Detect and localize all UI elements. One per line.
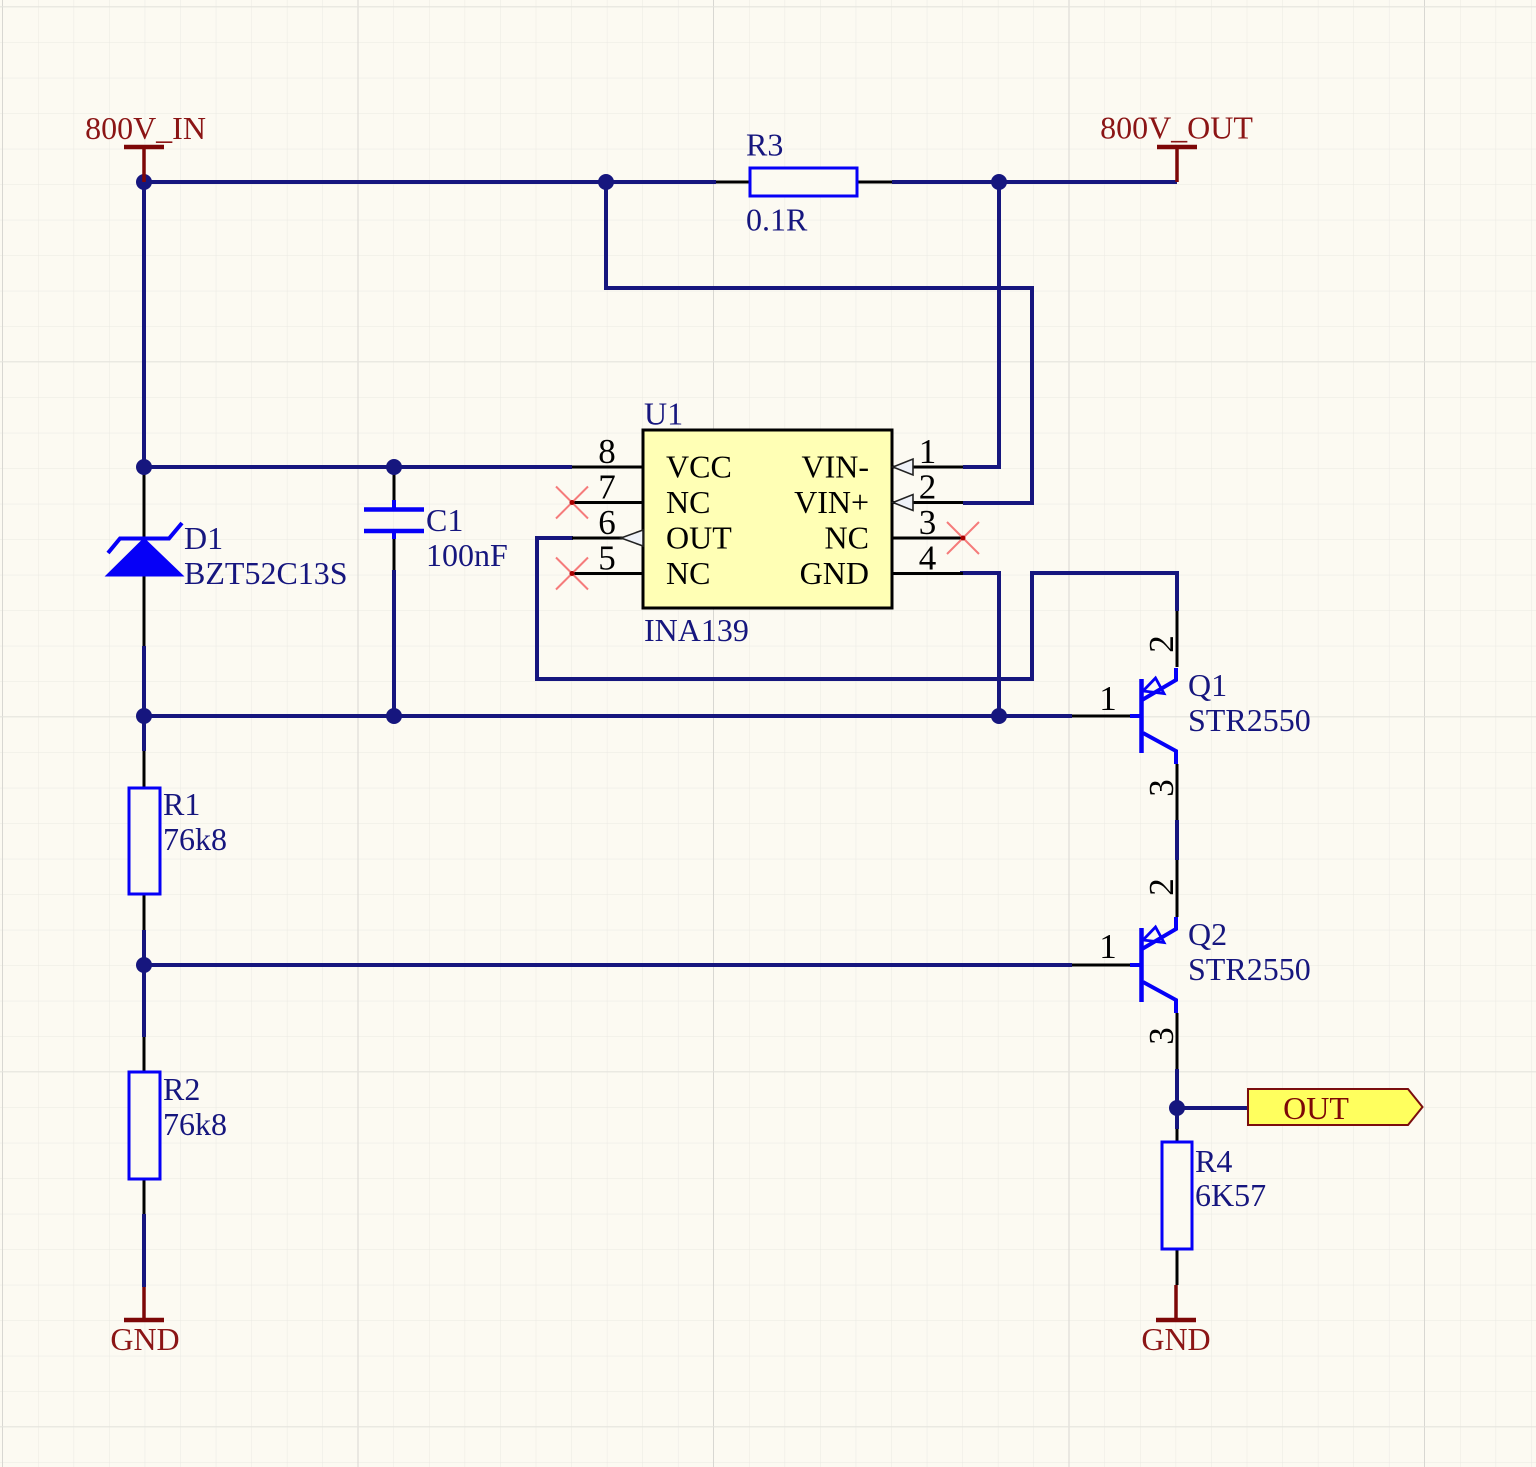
svg-text:R4: R4 bbox=[1195, 1143, 1232, 1179]
R4 pin 2 bbox=[1176, 1249, 1179, 1285]
svg-text:INA139: INA139 bbox=[644, 612, 749, 648]
D1 cathode pin bbox=[143, 467, 146, 538]
wire base row (D1 node to Q1 base) bbox=[144, 714, 1072, 718]
node OUT bbox=[1169, 1100, 1185, 1116]
Q1 pin 3 vertical bbox=[1176, 764, 1179, 820]
svg-text:Q1: Q1 bbox=[1188, 667, 1227, 703]
node VCC rail left bbox=[136, 459, 152, 475]
wire Q2 emitter to OUT node bbox=[1175, 1069, 1179, 1108]
wire OUT net (U1 pin 6 loop to Q1 collector) bbox=[537, 538, 1177, 679]
svg-text:NC: NC bbox=[666, 555, 710, 591]
R1 pin 1 bbox=[143, 751, 146, 788]
U1 pin 1 input triangle bbox=[893, 459, 913, 475]
svg-text:76k8: 76k8 bbox=[163, 1106, 227, 1142]
svg-text:NC: NC bbox=[666, 484, 710, 520]
R1 pin 2 bbox=[143, 894, 146, 930]
wire top rail left (800V_IN to R3) bbox=[144, 180, 716, 184]
wire VCC row bbox=[144, 465, 572, 469]
op-amp U1 INA139 body bbox=[643, 396, 892, 649]
U1 pin names bbox=[666, 449, 869, 592]
svg-text:VIN-: VIN- bbox=[801, 449, 869, 485]
Q1 pin 2 vertical bbox=[1176, 611, 1179, 667]
node 800V_IN junction bbox=[136, 174, 152, 190]
wire VIN- net (top rail to U1 pin 1) bbox=[963, 182, 999, 467]
wire VIN+ net (top rail to U1 pin 2) bbox=[606, 182, 1032, 503]
svg-text:1: 1 bbox=[1099, 679, 1117, 718]
svg-text:2: 2 bbox=[1142, 635, 1181, 653]
U1 pin 3 bbox=[892, 537, 963, 540]
svg-text:3: 3 bbox=[1142, 779, 1181, 797]
svg-text:0.1R: 0.1R bbox=[746, 202, 808, 238]
resistor R1 bbox=[129, 786, 227, 894]
capacitor C1 bbox=[364, 500, 508, 573]
Q1 pin 1 base bbox=[1072, 715, 1137, 718]
node C1 bottom bbox=[386, 708, 402, 724]
diode D1 zener bbox=[107, 520, 348, 591]
node base row left bbox=[136, 708, 152, 724]
svg-text:D1: D1 bbox=[184, 520, 223, 556]
wire OUT node to R4 top bbox=[1175, 1108, 1179, 1129]
svg-text:7: 7 bbox=[598, 468, 616, 507]
C1 pin 2 bbox=[393, 539, 396, 570]
svg-text:Q2: Q2 bbox=[1188, 916, 1227, 952]
svg-text:VIN+: VIN+ bbox=[794, 484, 869, 520]
svg-text:R3: R3 bbox=[746, 127, 783, 163]
svg-text:1: 1 bbox=[1099, 927, 1117, 966]
node U1 GND to base bbox=[991, 708, 1007, 724]
U1 pin 1 bbox=[892, 466, 963, 469]
wire R2 bottom to GND bbox=[142, 1214, 146, 1287]
svg-text:C1: C1 bbox=[426, 502, 463, 538]
transistor Q1 bbox=[1130, 668, 1176, 764]
ground GND left bbox=[110, 1287, 179, 1357]
svg-text:3: 3 bbox=[1142, 1027, 1181, 1045]
U1 pin 5 bbox=[572, 572, 643, 575]
Q2 pin 2 vertical bbox=[1176, 860, 1179, 917]
wire C1 bottom to base row bbox=[392, 570, 396, 716]
svg-text:GND: GND bbox=[110, 1321, 179, 1357]
svg-text:5: 5 bbox=[598, 539, 616, 578]
Q1 designator and value labels bbox=[1188, 667, 1311, 738]
svg-text:U1: U1 bbox=[644, 396, 683, 432]
svg-text:800V_IN: 800V_IN bbox=[85, 110, 206, 146]
R3 pin 1 bbox=[716, 181, 750, 184]
D1 anode pin bbox=[143, 575, 146, 646]
U1 pin numbers bbox=[598, 432, 936, 578]
svg-text:2: 2 bbox=[1142, 878, 1181, 896]
R2 pin 1 bbox=[143, 1037, 146, 1072]
svg-text:6K57: 6K57 bbox=[1195, 1177, 1266, 1213]
Q2 designator and value labels bbox=[1188, 916, 1311, 987]
svg-text:8: 8 bbox=[598, 432, 616, 471]
Q2 pin 3 vertical bbox=[1176, 1013, 1179, 1069]
wire left rail down to VCC row bbox=[142, 182, 146, 467]
svg-text:OUT: OUT bbox=[666, 520, 732, 556]
Q2 pin numbers 1 2 3 bbox=[1099, 878, 1181, 1045]
node VIN- tap bbox=[991, 174, 1007, 190]
U1 pin 2 bbox=[892, 501, 963, 504]
svg-text:6: 6 bbox=[598, 503, 616, 542]
svg-text:OUT: OUT bbox=[1283, 1090, 1349, 1126]
transistor Q2 bbox=[1130, 917, 1176, 1013]
wire D1 bottom to R1 top bbox=[142, 646, 146, 751]
U1 pin 2 input triangle bbox=[893, 495, 913, 511]
node VIN+ tap bbox=[598, 174, 614, 190]
svg-text:2: 2 bbox=[919, 468, 937, 507]
no-ERC cross pin 5 bbox=[556, 558, 588, 590]
wire U1 pin 4 GND to base row bbox=[960, 573, 999, 716]
ground GND right bbox=[1141, 1285, 1210, 1357]
power port 800V_IN bbox=[85, 110, 206, 182]
node C1 top bbox=[386, 459, 402, 475]
U1 pin 6 bbox=[572, 537, 643, 540]
svg-text:NC: NC bbox=[825, 520, 869, 556]
no-ERC cross pin 7 bbox=[556, 487, 588, 519]
wire OUT node to flag bbox=[1177, 1106, 1247, 1110]
node R1 R2 divider bbox=[136, 957, 152, 973]
wire top rail right (R3 to 800V_OUT) bbox=[892, 180, 1177, 184]
svg-text:76k8: 76k8 bbox=[163, 821, 227, 857]
port OUT flag bbox=[1248, 1089, 1423, 1126]
svg-text:GND: GND bbox=[1141, 1321, 1210, 1357]
R2 pin 2 bbox=[143, 1179, 146, 1214]
R4 pin 1 bbox=[1176, 1129, 1179, 1142]
svg-text:4: 4 bbox=[919, 539, 937, 578]
power port 800V_OUT bbox=[1100, 110, 1253, 183]
resistor R2 bbox=[129, 1071, 227, 1179]
U1 pin 6 output triangle bbox=[621, 530, 643, 546]
wire Q1 emitter to Q2 collector link bbox=[1175, 820, 1179, 860]
U1 pin 8 bbox=[572, 466, 643, 469]
Q1 pin numbers 1 2 3 bbox=[1099, 635, 1181, 797]
Q2 pin 1 base bbox=[1072, 964, 1137, 967]
svg-text:1: 1 bbox=[919, 432, 937, 471]
svg-text:R2: R2 bbox=[163, 1071, 200, 1107]
wire R1 bottom to mid node bbox=[142, 930, 146, 965]
C1 pin 1 bbox=[393, 467, 396, 501]
svg-text:BZT52C13S: BZT52C13S bbox=[184, 555, 348, 591]
svg-text:GND: GND bbox=[800, 555, 869, 591]
svg-text:VCC: VCC bbox=[666, 449, 732, 485]
wire Q2 base row bbox=[144, 963, 1072, 967]
svg-text:800V_OUT: 800V_OUT bbox=[1100, 110, 1253, 146]
U1 pin 7 bbox=[572, 501, 643, 504]
resistor R4 bbox=[1162, 1142, 1266, 1249]
svg-text:STR2550: STR2550 bbox=[1188, 951, 1311, 987]
wire mid node to R2 top bbox=[142, 965, 146, 1037]
svg-text:3: 3 bbox=[919, 503, 937, 542]
resistor R3 bbox=[746, 127, 857, 238]
svg-text:100nF: 100nF bbox=[426, 537, 508, 573]
svg-text:STR2550: STR2550 bbox=[1188, 702, 1311, 738]
U1 pin 4 bbox=[892, 572, 963, 575]
no-ERC cross pin 3 bbox=[947, 522, 979, 554]
svg-text:R1: R1 bbox=[163, 786, 200, 822]
R3 pin 2 bbox=[857, 181, 892, 184]
